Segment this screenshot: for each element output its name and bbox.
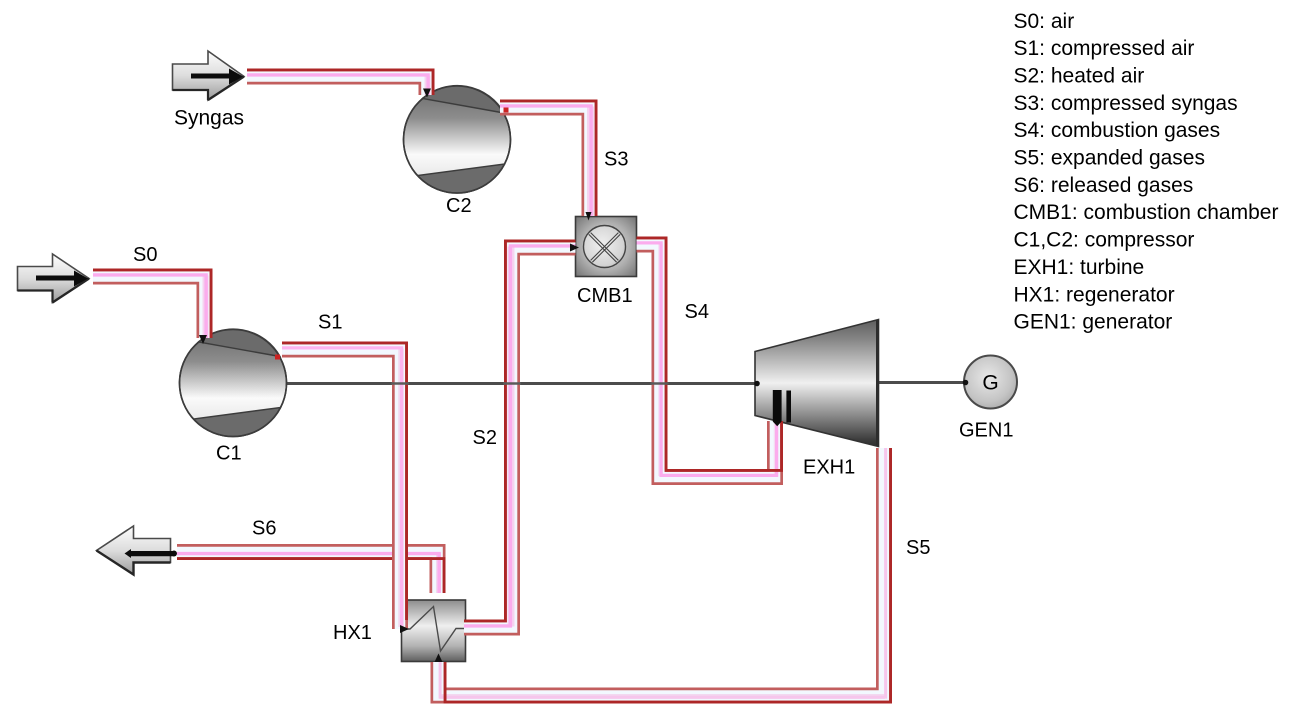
- pipe S1: [282, 343, 407, 629]
- svg-text:CMB1: combustion chamber: CMB1: combustion chamber: [1014, 201, 1279, 224]
- svg-text:HX1: regenerator: HX1: regenerator: [1014, 283, 1175, 306]
- svg-text:S2: heated air: S2: heated air: [1014, 65, 1145, 88]
- svg-text:S0: air: S0: air: [1014, 10, 1075, 33]
- svg-text:EXH1: EXH1: [803, 456, 855, 478]
- generator GEN1: [964, 356, 1017, 409]
- svg-text:S1: S1: [318, 311, 342, 333]
- svg-text:S2: S2: [473, 427, 497, 449]
- svg-text:GEN1: GEN1: [959, 419, 1013, 441]
- svg-text:G: G: [982, 372, 998, 395]
- shaft C1 to EXH1: [286, 382, 756, 385]
- regenerator HX1: [402, 600, 466, 662]
- pipe S3: [500, 101, 596, 216]
- connection arrow into C2: [423, 89, 431, 98]
- turbine inlet bars: [773, 390, 782, 426]
- svg-text:C1: C1: [216, 443, 242, 465]
- compressor C2: [404, 86, 511, 193]
- svg-text:Syngas: Syngas: [174, 106, 244, 129]
- svg-text:C1,C2: compressor: C1,C2: compressor: [1014, 229, 1195, 252]
- connection dot C1-S1: [275, 355, 280, 360]
- turbine EXH1: [755, 320, 879, 447]
- svg-text:EXH1: turbine: EXH1: turbine: [1014, 256, 1145, 279]
- pipe S2: [464, 241, 576, 628]
- svg-text:C2: C2: [446, 195, 472, 217]
- legend: [1014, 10, 1279, 334]
- svg-text:S3: compressed syngas: S3: compressed syngas: [1014, 92, 1238, 115]
- svg-text:GEN1: generator: GEN1: generator: [1014, 311, 1173, 334]
- svg-text:S0: S0: [133, 244, 157, 266]
- pipe S5: [439, 448, 891, 702]
- shaft EXH1 to GEN1: [878, 381, 965, 384]
- svg-text:CMB1: CMB1: [577, 285, 633, 307]
- svg-text:S6: released gases: S6: released gases: [1014, 174, 1194, 197]
- svg-text:S4: S4: [685, 301, 709, 323]
- svg-text:S6: S6: [252, 518, 276, 540]
- connection arrow into C1: [199, 335, 207, 344]
- svg-text:S1: compressed air: S1: compressed air: [1014, 37, 1195, 60]
- connection arrow into CMB1 top: [586, 212, 592, 221]
- pipe S6: [177, 552, 444, 593]
- output arrow S6: [97, 526, 178, 575]
- svg-text:S5: expanded gases: S5: expanded gases: [1014, 147, 1205, 170]
- shaft visible through pipe crossings: [391, 382, 409, 384]
- shaft dot at EXH1: [754, 381, 760, 387]
- connection arrow into HX1 left: [400, 625, 409, 633]
- compressor C1: [180, 329, 287, 436]
- input arrow Syngas: [173, 51, 245, 100]
- svg-text:S5: S5: [906, 537, 930, 559]
- svg-text:S4: combustion gases: S4: combustion gases: [1014, 119, 1221, 142]
- connection arrow into HX1 bottom: [435, 654, 443, 663]
- connection dot C2-S3: [504, 108, 509, 113]
- pipe S0: [93, 270, 211, 338]
- input arrow S0 air: [18, 254, 90, 303]
- shaft dot at GEN1: [963, 380, 969, 386]
- pipe Syngas: [247, 70, 433, 95]
- pipe S4: [637, 238, 782, 477]
- svg-text:HX1: HX1: [333, 622, 372, 644]
- combustion chamber CMB1: [576, 217, 637, 277]
- connection arrow into CMB1 left: [570, 244, 579, 252]
- svg-text:S3: S3: [604, 148, 628, 170]
